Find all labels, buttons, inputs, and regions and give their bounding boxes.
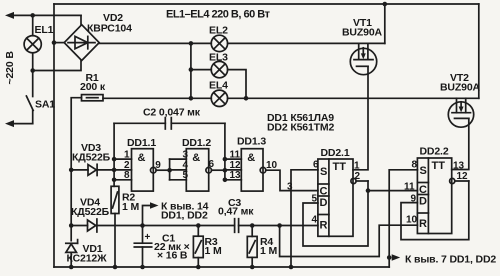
svg-text:1: 1 bbox=[124, 150, 130, 161]
wire EL4 to VT2 row bbox=[228, 97, 479, 99]
wire VT1 drain to top rail bbox=[384, 4, 386, 43]
svg-text:R: R bbox=[320, 220, 328, 232]
svg-text:R: R bbox=[419, 218, 427, 230]
svg-text:EL2: EL2 bbox=[209, 25, 228, 37]
diode VD4 bbox=[88, 220, 96, 231]
wire lamp column vertical bbox=[190, 43, 192, 98]
svg-text:BUZ90A: BUZ90A bbox=[342, 27, 383, 39]
wire DD2.2 D feedback bbox=[401, 181, 469, 240]
node EL3 EL4 tie bbox=[244, 96, 249, 101]
node lamp column top bbox=[189, 41, 194, 46]
wire VT1 gate to DD2.1 pin1 bbox=[353, 66, 368, 170]
wire DD2.1 D feedback bbox=[303, 181, 368, 246]
node lamp column mid bbox=[189, 67, 194, 72]
svg-text:DD1.1: DD1.1 bbox=[127, 137, 156, 149]
wire DD2.1 S to ground bbox=[291, 170, 318, 267]
svg-text:DD1.2: DD1.2 bbox=[182, 137, 211, 149]
wire DD1.3 pin 11 bbox=[225, 158, 241, 160]
wire EL1 bottom to bridge AC2 bbox=[33, 61, 81, 71]
svg-text:С2 0,047 мк: С2 0,047 мк bbox=[143, 107, 201, 119]
node rail R3 bbox=[196, 265, 201, 270]
svg-text:EL1: EL1 bbox=[35, 24, 54, 36]
svg-text:13: 13 bbox=[230, 170, 242, 181]
wire bridge plus to lamps row bbox=[99, 42, 211, 44]
svg-text:SA1: SA1 bbox=[35, 99, 55, 111]
node VD3 cathode bbox=[112, 168, 117, 173]
wire DD2.2 pin12 out bbox=[455, 180, 469, 182]
svg-text:EL1–EL4 220 В, 60 Вт: EL1–EL4 220 В, 60 Вт bbox=[166, 9, 271, 21]
svg-text:11: 11 bbox=[230, 150, 241, 161]
svg-text:К выв. 7 DD1, DD2: К выв. 7 DD1, DD2 bbox=[405, 254, 496, 266]
svg-text:EL3: EL3 bbox=[209, 52, 228, 64]
pointer to pin 14 supply bbox=[143, 206, 152, 226]
wire DD2.1 pin2 to DD2.2 pin11 bbox=[368, 190, 417, 192]
wire EL2 to VT1 row bbox=[228, 42, 385, 44]
port DD2.2 pin12 bubble bbox=[450, 178, 455, 183]
svg-text:1 М: 1 М bbox=[205, 245, 222, 257]
diode VD3 bbox=[71, 169, 88, 171]
mains top arrow bbox=[5, 12, 14, 19]
svg-text:КД522Б: КД522Б bbox=[71, 206, 110, 218]
resistor R1 bbox=[82, 95, 104, 101]
lamp EL2 bbox=[211, 35, 227, 51]
svg-text:S: S bbox=[320, 166, 327, 178]
lamp EL1 bbox=[24, 36, 41, 53]
node lamp column bottom bbox=[189, 96, 194, 101]
wire DD1.2 pin 4 bbox=[170, 169, 187, 171]
gate DD1.3 bbox=[241, 149, 263, 191]
wire DD1.1 pin 1 bbox=[114, 158, 131, 160]
svg-text:&: & bbox=[247, 152, 255, 164]
svg-text:1: 1 bbox=[354, 161, 360, 172]
svg-text:9: 9 bbox=[411, 194, 417, 205]
svg-text:DD2.1: DD2.1 bbox=[321, 147, 350, 159]
wire DD1.2 pin 3 bbox=[170, 158, 187, 160]
svg-text:9: 9 bbox=[155, 160, 161, 171]
node DD1.3 input tie bbox=[223, 168, 228, 173]
node DD1.3 pin13 bbox=[223, 178, 228, 183]
wire EL3 right lead bbox=[228, 70, 246, 99]
wire reset row to DD2.1 pin4 bbox=[239, 225, 318, 227]
wire bridge AC1 lead bbox=[80, 15, 82, 25]
wire DD1.1 pin 8 bbox=[114, 179, 131, 181]
resistor R4 bbox=[251, 226, 253, 237]
wire bottom rail bbox=[54, 266, 389, 268]
svg-text:&: & bbox=[138, 152, 146, 164]
port DD2.1 pin2 bubble bbox=[351, 178, 356, 183]
lamp EL3 bbox=[211, 61, 227, 77]
node rail VD1 bbox=[69, 265, 74, 270]
rectifier bridge VD2 bbox=[64, 25, 99, 61]
transistor VT1 bbox=[350, 48, 376, 74]
wire DD1.3 out to DD2.1 clock bbox=[266, 170, 318, 190]
svg-text:5: 5 bbox=[312, 194, 318, 205]
wire DD1.2 pin 5 bbox=[170, 179, 187, 181]
wire DD1.2 input vertical bbox=[169, 159, 171, 180]
svg-text:BUZ90A: BUZ90A bbox=[440, 82, 481, 94]
svg-text:3: 3 bbox=[287, 182, 293, 193]
wire DD1.1 pin 2 bbox=[114, 169, 131, 171]
svg-text:КВРС104: КВРС104 bbox=[87, 23, 132, 35]
wire top rail right drop bbox=[478, 4, 480, 98]
wire mains top feed bbox=[11, 14, 81, 16]
transistor VT2 bbox=[448, 102, 473, 127]
wire DD1.3 pin 12 bbox=[225, 169, 241, 171]
svg-text:13: 13 bbox=[453, 161, 465, 172]
zener VD1 bbox=[66, 242, 78, 244]
svg-text:10: 10 bbox=[266, 160, 278, 171]
svg-text:8: 8 bbox=[124, 170, 130, 181]
wire DD1.2 out bbox=[212, 169, 225, 171]
wire EL1 top lead bbox=[32, 15, 34, 35]
wire left DC bus bbox=[53, 4, 55, 267]
wire DD1.1 out bbox=[156, 169, 170, 171]
gate DD1.2 bbox=[186, 149, 208, 191]
svg-text:+: + bbox=[145, 232, 151, 243]
svg-text:0,47 мк: 0,47 мк bbox=[218, 206, 254, 218]
svg-text:D: D bbox=[320, 197, 328, 209]
svg-text:6: 6 bbox=[313, 159, 319, 170]
svg-text:4: 4 bbox=[312, 215, 318, 226]
node rail C1 bbox=[140, 265, 145, 270]
svg-text:8: 8 bbox=[412, 159, 418, 170]
svg-text:EL4: EL4 bbox=[209, 80, 228, 92]
svg-text:1 М: 1 М bbox=[122, 201, 139, 213]
capacitor C3 bbox=[234, 219, 236, 233]
node VT1 drain rail junction bbox=[383, 2, 388, 7]
node C1 plus bbox=[140, 223, 145, 228]
svg-text:S: S bbox=[420, 165, 427, 177]
mains bottom arrow bbox=[5, 120, 14, 127]
flip-flop DD2.1 bbox=[318, 159, 353, 236]
node DD1.2 input tie bbox=[167, 168, 172, 173]
wire DD2.2 S to ground bbox=[389, 170, 417, 267]
node rail R4 bbox=[250, 265, 255, 270]
wire mains bottom feed bbox=[11, 123, 33, 125]
resistor R2 bbox=[111, 186, 119, 213]
node reset branch bbox=[277, 223, 282, 228]
node VD4 anode bbox=[69, 223, 74, 228]
svg-text:12: 12 bbox=[457, 171, 469, 182]
wire top rail bbox=[54, 3, 479, 5]
wire R1 left lead down bbox=[71, 98, 81, 241]
switch SA1 bbox=[32, 71, 34, 97]
wire C2 to DD1.3 inputs bbox=[224, 123, 226, 180]
node DD1.1 pin8 bbox=[112, 178, 117, 183]
lamp EL4 bbox=[211, 90, 227, 106]
svg-text:TT: TT bbox=[432, 160, 446, 172]
node R4 top bbox=[250, 223, 255, 228]
svg-text:3: 3 bbox=[183, 150, 189, 161]
node rail R2 bbox=[113, 265, 118, 270]
wire supply row to C3 bbox=[97, 225, 235, 227]
svg-text:200 к: 200 к bbox=[80, 81, 106, 93]
svg-text:11: 11 bbox=[404, 182, 415, 193]
gate DD1.1 bbox=[132, 149, 154, 191]
pointer to pin 7 ground bbox=[392, 254, 401, 261]
node VD3 anode tap bbox=[69, 168, 74, 173]
wire R1 to EL4 row bbox=[103, 97, 211, 99]
svg-text:~220 В: ~220 В bbox=[4, 51, 16, 85]
node R3 top bbox=[196, 223, 201, 228]
node bus bridge junction bbox=[52, 40, 57, 45]
svg-text:DD1.3: DD1.3 bbox=[237, 136, 266, 148]
svg-text:&: & bbox=[192, 152, 200, 164]
svg-text:D: D bbox=[419, 196, 427, 208]
node rail DD2.1 S bbox=[289, 265, 294, 270]
svg-text:DD1, DD2: DD1, DD2 bbox=[161, 210, 208, 222]
resistor R3 bbox=[197, 226, 199, 237]
svg-text:5: 5 bbox=[183, 170, 189, 181]
svg-text:6: 6 bbox=[209, 159, 215, 170]
wire DD1.1 input vertical bbox=[113, 123, 115, 186]
wire VT2 gate to DD2.2 pin13 bbox=[452, 118, 469, 169]
node DD1.1 pin1 bbox=[112, 157, 117, 162]
node EL1 top junction bbox=[30, 13, 35, 18]
wire reset link to DD2.2 pin10 bbox=[280, 225, 418, 256]
wire supply row left bbox=[71, 225, 87, 227]
wire EL1 bottom lead bbox=[32, 53, 34, 71]
svg-text:1 М: 1 М bbox=[260, 245, 277, 257]
svg-text:10: 10 bbox=[406, 215, 418, 226]
node EL1 bottom junction bbox=[30, 68, 35, 73]
svg-text:КС212Ж: КС212Ж bbox=[67, 253, 108, 265]
svg-text:TT: TT bbox=[333, 161, 347, 173]
capacitor C2 bbox=[114, 122, 165, 124]
wire DD2.1 pin2 out bbox=[356, 180, 368, 182]
svg-text:C: C bbox=[320, 186, 328, 198]
flip-flop DD2.2 bbox=[417, 158, 451, 234]
svg-text:DD2 К561ТМ2: DD2 К561ТМ2 bbox=[267, 122, 335, 134]
svg-text:2: 2 bbox=[355, 171, 361, 182]
wire DD1.3 pin 13 bbox=[225, 179, 241, 181]
svg-text:КД522Б: КД522Б bbox=[72, 152, 111, 164]
wire EL3 left lead bbox=[191, 69, 211, 71]
node DD1.3 pin11 bbox=[223, 157, 228, 162]
svg-text:DD2.2: DD2.2 bbox=[420, 146, 449, 158]
wire bridge minus to bus bbox=[54, 42, 64, 44]
node DD2.1 Q-bar to DD2.2 C bbox=[366, 188, 371, 193]
svg-text:C: C bbox=[419, 184, 427, 196]
wire R2 bottom lead bbox=[114, 214, 116, 268]
capacitor C1 polarized bbox=[142, 226, 144, 244]
svg-text:× 16 В: × 16 В bbox=[157, 250, 188, 262]
node ground pointer bbox=[387, 255, 392, 260]
